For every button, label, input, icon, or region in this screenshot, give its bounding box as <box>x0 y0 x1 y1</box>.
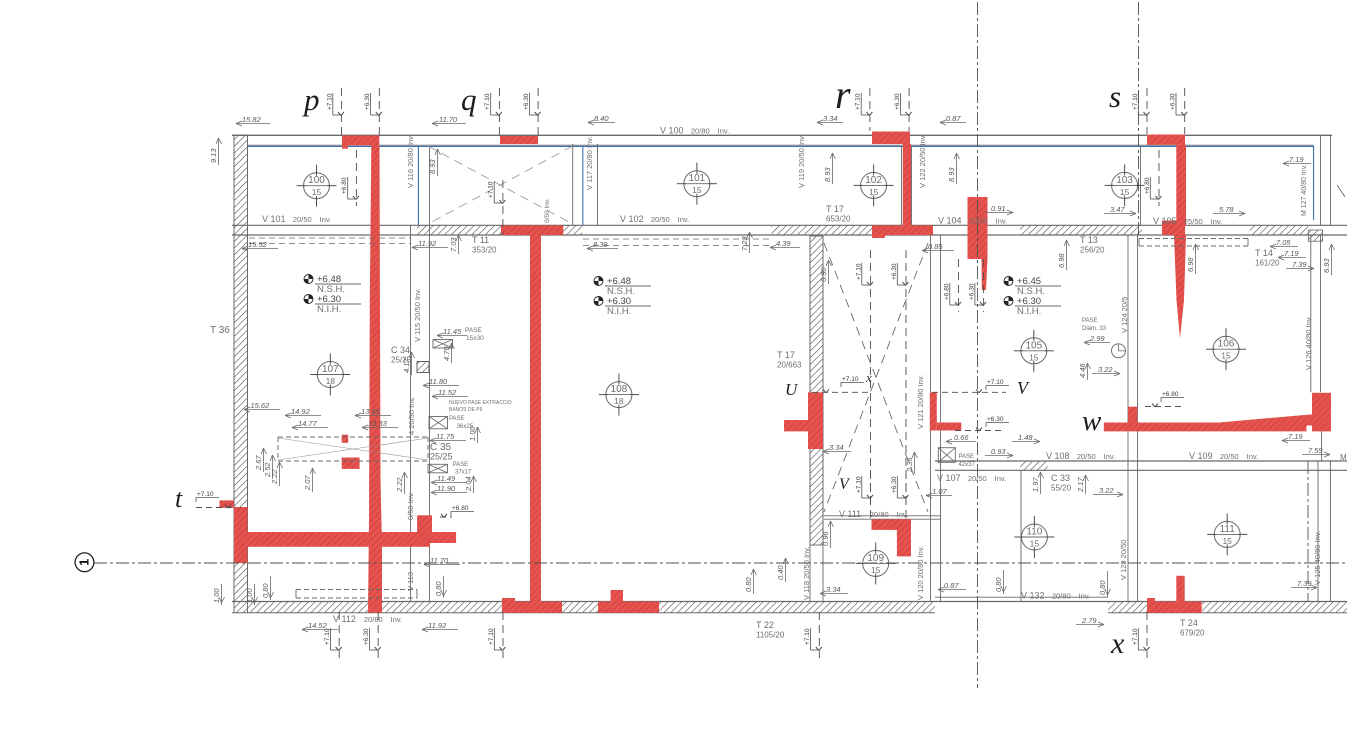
svg-text:20/80: 20/80 <box>1052 592 1071 601</box>
svg-text:15: 15 <box>1120 187 1130 197</box>
svg-text:s: s <box>1109 79 1121 114</box>
svg-text:+6.30: +6.30 <box>891 263 898 280</box>
svg-text:2.22: 2.22 <box>395 477 404 493</box>
svg-text:T 36: T 36 <box>210 325 230 336</box>
svg-text:3.34: 3.34 <box>823 114 838 123</box>
svg-text:q: q <box>461 82 477 117</box>
svg-text:0.80: 0.80 <box>744 577 753 592</box>
svg-text:20/50: 20/50 <box>1220 452 1239 461</box>
svg-text:15.62: 15.62 <box>251 401 271 410</box>
svg-text:6.98: 6.98 <box>1057 253 1066 268</box>
svg-text:25/50: 25/50 <box>1184 217 1203 226</box>
svg-text:+7.10: +7.10 <box>987 379 1004 386</box>
svg-text:T 11: T 11 <box>472 235 489 245</box>
svg-text:11.45: 11.45 <box>443 327 462 336</box>
svg-text:V 113: V 113 <box>406 572 415 591</box>
svg-text:55/20: 55/20 <box>1051 484 1072 493</box>
svg-text:Inv.: Inv. <box>678 215 690 224</box>
svg-text:0.93: 0.93 <box>991 447 1006 456</box>
svg-text:1.97: 1.97 <box>1031 477 1040 492</box>
svg-text:15: 15 <box>871 565 881 575</box>
svg-text:1.07: 1.07 <box>932 487 947 496</box>
svg-text:Inv.: Inv. <box>1247 452 1259 461</box>
svg-text:+6.30: +6.30 <box>968 283 975 300</box>
svg-text:2.79: 2.79 <box>1081 616 1097 625</box>
svg-text:42x37: 42x37 <box>959 462 976 468</box>
svg-text:15: 15 <box>1029 352 1039 362</box>
svg-text:11.70: 11.70 <box>439 115 458 124</box>
svg-text:110: 110 <box>1026 527 1042 538</box>
svg-text:8.93: 8.93 <box>428 159 437 174</box>
svg-text:101: 101 <box>689 173 706 184</box>
svg-text:8.93: 8.93 <box>947 167 956 182</box>
svg-text:3.47: 3.47 <box>1110 205 1125 214</box>
svg-text:161/20: 161/20 <box>1255 259 1280 268</box>
svg-text:3.34: 3.34 <box>829 443 844 452</box>
svg-text:11.70: 11.70 <box>430 556 449 565</box>
svg-text:+6.80: +6.80 <box>1162 391 1179 398</box>
svg-text:20/663: 20/663 <box>777 361 802 370</box>
svg-text:20/50: 20/50 <box>651 215 670 224</box>
svg-text:+7.10: +7.10 <box>326 93 333 110</box>
svg-text:C 34: C 34 <box>391 345 410 355</box>
svg-text:6.90: 6.90 <box>819 267 828 282</box>
svg-text:BANOS DE P9: BANOS DE P9 <box>449 407 483 413</box>
svg-text:3.34: 3.34 <box>826 585 841 594</box>
svg-text:+6.80: +6.80 <box>452 505 469 512</box>
svg-text:5.78: 5.78 <box>1219 205 1234 214</box>
svg-text:PASE: PASE <box>465 327 483 334</box>
svg-text:11.52: 11.52 <box>438 388 457 397</box>
svg-text:T 17: T 17 <box>826 204 844 214</box>
svg-text:V 117 20/80 Inv.: V 117 20/80 Inv. <box>585 136 594 190</box>
svg-text:+7.10: +7.10 <box>855 93 862 110</box>
svg-text:NUEVO PASE EXTRACCIO: NUEVO PASE EXTRACCIO <box>449 400 512 406</box>
svg-text:V 119 20/50 Inv.: V 119 20/50 Inv. <box>797 134 806 188</box>
svg-text:PASE: PASE <box>1082 318 1098 324</box>
svg-text:T 24: T 24 <box>1180 618 1198 628</box>
svg-text:4.17: 4.17 <box>402 358 411 373</box>
svg-text:+7.10: +7.10 <box>842 376 859 383</box>
svg-text:11.49: 11.49 <box>437 474 456 483</box>
svg-text:106: 106 <box>1218 339 1235 350</box>
svg-text:+7.10: +7.10 <box>1132 93 1139 110</box>
svg-text:7.19: 7.19 <box>1284 249 1299 258</box>
svg-text:11.92: 11.92 <box>418 239 437 248</box>
svg-text:+7.10: +7.10 <box>855 263 862 280</box>
svg-text:20/50: 20/50 <box>293 215 312 224</box>
svg-text:11.75: 11.75 <box>436 432 455 441</box>
svg-text:Diám. 33: Diám. 33 <box>1082 326 1107 332</box>
svg-text:9.13: 9.13 <box>209 148 218 163</box>
svg-text:T 22: T 22 <box>756 620 774 630</box>
svg-text:+6.80: +6.80 <box>943 283 950 300</box>
svg-text:V 116 20/80 Inv.: V 116 20/80 Inv. <box>406 134 415 188</box>
svg-text:M 127 40/80 Inv.: M 127 40/80 Inv. <box>1301 164 1308 216</box>
svg-text:t: t <box>175 484 183 513</box>
svg-text:0.85: 0.85 <box>928 242 943 251</box>
svg-text:V 104: V 104 <box>938 216 962 226</box>
svg-text:36x25: 36x25 <box>457 424 474 430</box>
svg-text:V 120 20/80 Inv.: V 120 20/80 Inv. <box>916 546 925 600</box>
svg-text:15: 15 <box>869 187 879 197</box>
svg-text:Inv.: Inv. <box>320 215 332 224</box>
svg-text:0.87: 0.87 <box>944 581 959 590</box>
svg-text:N.I.H.: N.I.H. <box>317 304 341 315</box>
svg-text:0.80: 0.80 <box>261 583 270 598</box>
svg-text:Inv.: Inv. <box>1211 217 1223 226</box>
svg-text:V 115 20/50 Inv.: V 115 20/50 Inv. <box>413 288 422 342</box>
svg-text:20/80: 20/80 <box>364 615 383 624</box>
svg-text:7.39: 7.39 <box>1297 579 1312 588</box>
svg-text:7.19: 7.19 <box>1288 432 1303 441</box>
svg-text:111: 111 <box>1220 524 1236 535</box>
svg-text:25/25: 25/25 <box>430 452 453 462</box>
svg-text:8.40: 8.40 <box>594 114 609 123</box>
svg-text:+7.10: +7.10 <box>804 628 811 645</box>
svg-text:13.33: 13.33 <box>368 419 388 428</box>
svg-text:1.00: 1.00 <box>245 588 254 603</box>
svg-text:256/20: 256/20 <box>1080 246 1105 255</box>
svg-text:7.05: 7.05 <box>1276 238 1291 247</box>
svg-text:+6.80: +6.80 <box>1144 177 1151 194</box>
svg-text:0.80: 0.80 <box>1098 580 1107 595</box>
svg-text:20/80: 20/80 <box>691 127 710 136</box>
svg-text:18: 18 <box>614 396 624 406</box>
svg-text:102: 102 <box>865 175 882 186</box>
svg-text:7.19: 7.19 <box>1289 155 1304 164</box>
svg-text:15: 15 <box>1030 539 1040 549</box>
svg-text:2.36: 2.36 <box>905 457 914 473</box>
svg-text:4.46: 4.46 <box>1078 363 1087 378</box>
svg-text:x: x <box>865 370 872 385</box>
svg-text:7.59: 7.59 <box>1308 446 1323 455</box>
svg-text:V 102: V 102 <box>620 214 644 224</box>
svg-text:15.82: 15.82 <box>242 115 262 124</box>
svg-text:T 14: T 14 <box>1255 248 1273 258</box>
svg-text:+7.10: +7.10 <box>488 181 495 198</box>
svg-text:108: 108 <box>611 384 628 395</box>
svg-text:C 33: C 33 <box>1051 473 1070 483</box>
svg-text:2.67: 2.67 <box>254 455 263 471</box>
svg-text:N.I.H.: N.I.H. <box>1017 306 1041 317</box>
svg-text:7.23: 7.23 <box>740 236 749 251</box>
svg-text:0.80: 0.80 <box>994 577 1003 592</box>
svg-text:0.80: 0.80 <box>434 581 443 596</box>
svg-text:U: U <box>785 380 799 399</box>
svg-text:V 107: V 107 <box>937 473 961 483</box>
svg-text:20/50: 20/50 <box>968 474 987 483</box>
svg-text:Inv.: Inv. <box>391 615 403 624</box>
svg-text:Inv.: Inv. <box>897 510 909 519</box>
svg-text:20/50: 20/50 <box>969 217 988 226</box>
svg-text:14.77: 14.77 <box>298 419 318 428</box>
svg-text:+6.30: +6.30 <box>364 93 371 110</box>
svg-text:3.22: 3.22 <box>1098 365 1113 374</box>
svg-text:1105/20: 1105/20 <box>756 631 785 640</box>
svg-text:15: 15 <box>1221 351 1231 361</box>
svg-text:2.99: 2.99 <box>1089 334 1105 343</box>
svg-text:V 111: V 111 <box>839 509 861 519</box>
svg-text:6.98: 6.98 <box>1186 257 1195 272</box>
svg-text:+6.80: +6.80 <box>341 177 348 194</box>
svg-text:+6.30: +6.30 <box>1170 93 1177 110</box>
svg-text:8.93: 8.93 <box>823 167 832 182</box>
svg-text:+6.30: +6.30 <box>363 628 370 645</box>
svg-text:15: 15 <box>1222 536 1232 546</box>
svg-text:105: 105 <box>1025 340 1042 351</box>
svg-text:0.91: 0.91 <box>991 204 1006 213</box>
svg-text:18: 18 <box>326 376 336 386</box>
svg-text:V 101: V 101 <box>262 214 286 224</box>
svg-text:11.92: 11.92 <box>428 621 447 630</box>
svg-text:37x17: 37x17 <box>455 470 472 476</box>
svg-text:T 13: T 13 <box>1080 235 1098 245</box>
svg-text:Inv.: Inv. <box>1104 452 1116 461</box>
svg-text:V 112: V 112 <box>333 614 356 624</box>
svg-text:V 132: V 132 <box>1021 591 1045 601</box>
svg-text:r: r <box>835 72 851 117</box>
svg-text:+7.10: +7.10 <box>484 93 491 110</box>
svg-text:353/20: 353/20 <box>472 246 497 255</box>
svg-text:0.96: 0.96 <box>821 531 830 546</box>
svg-text:15.52: 15.52 <box>248 240 268 249</box>
svg-text:V 108: V 108 <box>1046 451 1070 461</box>
svg-text:0/50 Inv.: 0/50 Inv. <box>544 198 551 223</box>
svg-text:2.04: 2.04 <box>464 476 473 492</box>
svg-text:1: 1 <box>77 559 92 566</box>
svg-text:x: x <box>1110 627 1125 660</box>
svg-text:V 122 20/50 Inv.: V 122 20/50 Inv. <box>918 134 927 188</box>
svg-text:679/20: 679/20 <box>1180 629 1205 638</box>
svg-text:PASE: PASE <box>453 462 469 468</box>
svg-text:0.40: 0.40 <box>776 565 785 580</box>
svg-text:+7.10: +7.10 <box>488 628 495 645</box>
svg-text:+6.30: +6.30 <box>891 476 898 493</box>
svg-text:653/20: 653/20 <box>826 215 851 224</box>
svg-text:V 118 20/50 Inv.: V 118 20/50 Inv. <box>802 546 811 600</box>
svg-text:15: 15 <box>692 185 702 195</box>
svg-text:100: 100 <box>308 175 325 186</box>
svg-text:+7.10: +7.10 <box>855 476 862 493</box>
svg-text:13.45: 13.45 <box>361 407 381 416</box>
svg-text:4.39: 4.39 <box>776 239 791 248</box>
svg-text:6.93: 6.93 <box>1322 258 1331 273</box>
svg-text:Inv.: Inv. <box>1079 592 1091 601</box>
svg-text:1.48: 1.48 <box>1018 433 1033 442</box>
svg-text:PASE: PASE <box>449 416 465 422</box>
svg-text:V 126 40/80 Inv.: V 126 40/80 Inv. <box>1304 316 1313 370</box>
svg-text:PASE: PASE <box>959 454 975 460</box>
svg-text:+6.30: +6.30 <box>523 93 530 110</box>
svg-text:1.00: 1.00 <box>212 588 221 603</box>
svg-text:V 124 20/5: V 124 20/5 <box>1120 297 1129 333</box>
svg-text:+7.10: +7.10 <box>1132 628 1139 645</box>
svg-text:M 1: M 1 <box>1340 453 1347 462</box>
svg-text:20/80: 20/80 <box>870 510 889 519</box>
svg-text:V 123 20/50: V 123 20/50 <box>1119 540 1128 580</box>
svg-text:T 17: T 17 <box>777 350 795 360</box>
svg-text:+7.10: +7.10 <box>324 628 331 645</box>
svg-text:0.66: 0.66 <box>954 433 969 442</box>
svg-text:0/50 Inv.: 0/50 Inv. <box>406 492 415 520</box>
svg-text:4 20/50 Inv.: 4 20/50 Inv. <box>407 396 416 435</box>
svg-text:8.39: 8.39 <box>593 240 608 249</box>
svg-text:Inv.: Inv. <box>996 217 1008 226</box>
svg-text:V 125 40/80 Inv.: V 125 40/80 Inv. <box>1313 531 1322 585</box>
svg-text:14.92: 14.92 <box>291 407 311 416</box>
svg-text:V 105: V 105 <box>1153 216 1177 226</box>
svg-text:20/50: 20/50 <box>1077 452 1096 461</box>
svg-text:15: 15 <box>312 187 322 197</box>
svg-text:0.87: 0.87 <box>946 114 961 123</box>
svg-text:15x30: 15x30 <box>466 335 484 342</box>
svg-text:V 100: V 100 <box>660 126 684 136</box>
svg-text:109: 109 <box>867 553 884 564</box>
svg-text:103: 103 <box>1116 175 1133 186</box>
svg-text:+6.30: +6.30 <box>987 416 1004 423</box>
svg-text:107: 107 <box>322 364 339 375</box>
svg-text:2.07: 2.07 <box>303 475 312 491</box>
svg-text:11.80: 11.80 <box>429 377 448 386</box>
svg-text:7.39: 7.39 <box>1292 260 1307 269</box>
svg-text:2.22: 2.22 <box>270 469 279 485</box>
svg-text:14.52: 14.52 <box>308 621 328 630</box>
svg-text:3.22: 3.22 <box>1099 486 1114 495</box>
svg-text:+6.30: +6.30 <box>894 93 901 110</box>
svg-text:w: w <box>1082 405 1102 437</box>
svg-text:Inv.: Inv. <box>995 474 1007 483</box>
svg-text:V 109: V 109 <box>1189 451 1213 461</box>
svg-text:11.90: 11.90 <box>437 484 456 493</box>
svg-text:Inv.: Inv. <box>718 127 730 136</box>
svg-text:p: p <box>302 82 320 117</box>
svg-text:V 121 20/80 Inv.: V 121 20/80 Inv. <box>916 375 925 429</box>
svg-text:+7.10: +7.10 <box>197 491 214 498</box>
svg-text:N.I.H.: N.I.H. <box>607 306 631 317</box>
